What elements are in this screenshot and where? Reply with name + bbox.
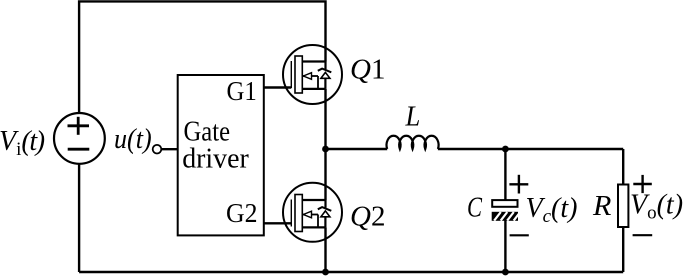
- node: switching node junction dot: [322, 146, 329, 153]
- svg-text:Vc(t): Vc(t): [526, 193, 578, 227]
- voltage source Vi(t): [54, 113, 105, 164]
- wire: bottom rail: [79, 271, 623, 273]
- minus sign capacitor polarity: [510, 234, 529, 236]
- svg-text:Q1: Q1: [350, 54, 385, 86]
- wire: G2 to Q2 gate: [264, 222, 292, 224]
- wire: top rail from source to Q1 drain: [79, 1, 325, 113]
- svg-text:Q2: Q2: [350, 201, 385, 233]
- wire: Q2 source to bottom rail: [324, 227, 326, 272]
- wire: G1 to Q1 gate: [264, 86, 292, 88]
- wire: u(t) terminal to gate driver box: [161, 148, 177, 150]
- wire: Q1 source to switching node to Q2 drain: [324, 89, 326, 200]
- wire: resistor bottom to bottom rail: [622, 227, 624, 272]
- svg-text:driver: driver: [182, 144, 249, 175]
- terminal u(t) input circle: [153, 145, 162, 154]
- svg-text:L: L: [405, 101, 421, 133]
- transistor Q2 (MOSFET with body diode): [283, 183, 342, 242]
- plus sign capacitor polarity: [509, 175, 528, 194]
- plus sign output polarity: [633, 175, 652, 193]
- svg-text:R: R: [592, 191, 611, 222]
- svg-text:G2: G2: [226, 198, 258, 228]
- wire: right rail down to resistor: [622, 149, 624, 185]
- transistor Q1 (MOSFET with body diode): [283, 45, 342, 104]
- node: output top junction dot: [502, 146, 509, 153]
- label Gate driver: [182, 116, 249, 174]
- wire: inductor to output node and to resistor top corner: [438, 148, 623, 150]
- wire: capacitor bottom plate to bottom rail: [504, 220, 506, 272]
- wire: switching node to inductor: [326, 148, 388, 150]
- wire: output node down to capacitor top plate: [504, 149, 506, 200]
- gate driver box: [178, 75, 264, 235]
- svg-text:Vi(t): Vi(t): [0, 126, 45, 160]
- svg-text:C: C: [467, 193, 482, 224]
- capacitor C (polarized): [492, 200, 520, 221]
- node: capacitor bottom junction dot: [502, 269, 509, 276]
- inductor L: [387, 136, 439, 149]
- svg-text:u(t): u(t): [114, 124, 152, 155]
- resistor R: [618, 185, 628, 228]
- minus sign output polarity: [633, 234, 653, 236]
- svg-text:Vo(t): Vo(t): [630, 190, 683, 224]
- node: Q2 source at bottom rail junction dot: [322, 269, 329, 276]
- wire: source bottom lead to bottom rail: [78, 163, 80, 272]
- svg-text:G1: G1: [227, 76, 257, 106]
